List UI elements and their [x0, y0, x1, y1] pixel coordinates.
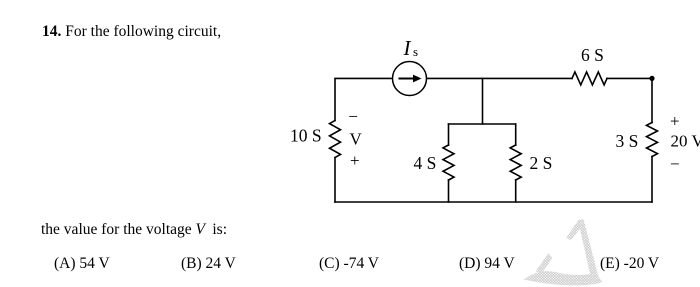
current source arrow	[399, 78, 415, 80]
resistor 6 S (top, zigzag)	[572, 72, 607, 85]
svg-text:the value for the voltage V is: the value for the voltage V is:	[41, 221, 227, 238]
wire top-mid (current source to 6S)	[427, 77, 573, 79]
svg-text:6 S: 6 S	[581, 45, 604, 65]
svg-text:V: V	[350, 130, 363, 149]
svg-text:+: +	[350, 151, 360, 170]
svg-text:4 S: 4 S	[414, 153, 437, 173]
svg-text:s: s	[413, 44, 418, 59]
wire 2S top	[515, 124, 517, 145]
svg-text:14. For the following circuit,: 14. For the following circuit,	[42, 23, 221, 40]
wire right-bottom (3S to bottom rail)	[651, 157, 653, 203]
resistor 2 S (zigzag)	[510, 145, 521, 180]
resistor 3 S (right, zigzag)	[647, 123, 658, 157]
wire 2S bottom	[515, 180, 517, 202]
wire 4S top	[448, 124, 450, 145]
wire mid stub (top rail to bar)	[482, 78, 484, 124]
node dot	[649, 76, 654, 81]
svg-text:(B) 24 V: (B) 24 V	[181, 255, 237, 272]
current source Is circle	[393, 62, 427, 96]
svg-text:+: +	[670, 112, 680, 131]
svg-text:(E) -20 V: (E) -20 V	[600, 255, 660, 272]
svg-text:(A) 54 V: (A) 54 V	[54, 255, 110, 272]
svg-text:−: −	[670, 155, 680, 174]
svg-text:(C) -74 V: (C) -74 V	[319, 255, 380, 272]
svg-text:I: I	[403, 36, 412, 60]
wire left-bottom (10S to bottom rail)	[334, 158, 336, 203]
wire bottom rail	[335, 201, 652, 203]
wire right (node to 3S)	[651, 78, 653, 122]
svg-text:(D) 94 V: (D) 94 V	[459, 255, 515, 272]
wire mid bar	[449, 123, 516, 125]
svg-text:2 S: 2 S	[530, 153, 553, 173]
watermark swoosh logo	[524, 219, 603, 285]
svg-text:20 V: 20 V	[671, 132, 700, 151]
wire top-right (6S to node)	[607, 77, 652, 79]
svg-text:−: −	[348, 107, 358, 126]
wire top-left (left corner to current source)	[335, 78, 393, 120]
resistor 4 S (zigzag)	[443, 145, 454, 180]
svg-text:3 S: 3 S	[616, 131, 639, 151]
svg-text:10 S: 10 S	[290, 126, 322, 146]
resistor 10 S (left, zigzag)	[330, 121, 341, 158]
wire 4S bottom	[448, 180, 450, 202]
